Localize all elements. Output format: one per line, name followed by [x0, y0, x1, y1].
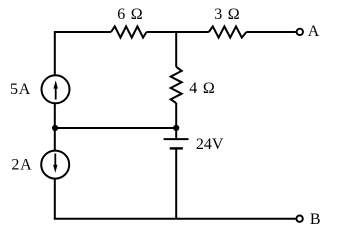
svg-text:4 Ω: 4 Ω: [189, 80, 215, 97]
junction node left (middle wire / left branch): [52, 125, 58, 131]
terminal B (open circle): [296, 216, 302, 222]
wire from 3-ohm resistor to terminal A: [246, 31, 295, 33]
junction node middle (battery top): [173, 125, 179, 131]
battery 24V short plate: [170, 147, 183, 149]
terminal A (open circle): [297, 29, 303, 35]
svg-text:B: B: [310, 211, 321, 228]
arrow of 5A source (up): [55, 88, 57, 100]
svg-text:6 Ω: 6 Ω: [117, 6, 143, 23]
svg-text:A: A: [308, 23, 320, 40]
resistor 4 ohm (vertical): [171, 67, 182, 103]
wire middle vertical top (top wire to 4-ohm resistor): [175, 31, 177, 67]
current source 2A (circle): [41, 151, 69, 179]
resistor 3 ohm: [209, 26, 247, 37]
wire middle vertical (4-ohm resistor to battery): [175, 103, 177, 139]
arrow of 2A source (down): [54, 154, 56, 167]
resistor 6 ohm: [111, 26, 147, 37]
svg-text:3 Ω: 3 Ω: [214, 6, 240, 23]
wire top-left (left vertical top + top horizontal to 6-ohm resistor): [55, 32, 111, 75]
svg-text:24V: 24V: [196, 136, 224, 153]
current source 5A (circle): [42, 75, 70, 103]
battery 24V long plate: [164, 138, 189, 140]
svg-text:5A: 5A: [10, 81, 31, 98]
wire bottom (to terminal B): [55, 218, 296, 219]
wire middle horizontal (node to battery branch): [55, 127, 176, 129]
svg-text:2A: 2A: [11, 157, 32, 174]
wire between 6-ohm and 3-ohm resistors: [147, 31, 209, 33]
wire middle vertical bottom (battery to bottom wire): [175, 148, 177, 218]
wire left vertical between 5A source and node: [54, 104, 56, 152]
wire left vertical bottom (2A source to bottom wire): [54, 179, 56, 219]
